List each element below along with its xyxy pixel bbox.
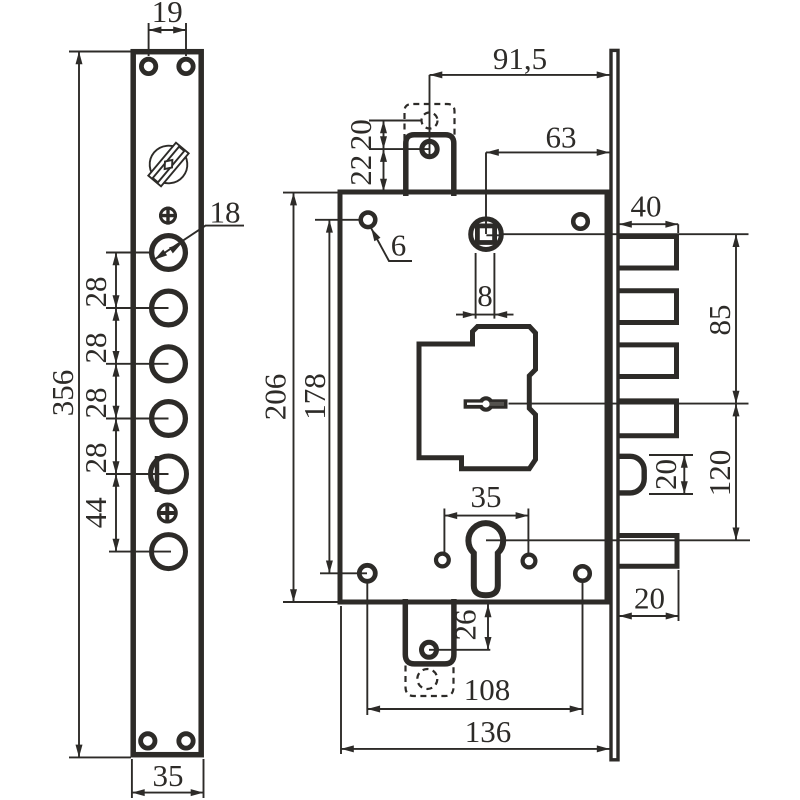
cross-head screw lower (157, 503, 178, 524)
spindle square center tick (486, 234, 503, 236)
dimension 8 (456, 253, 514, 319)
bolt hole 2 (152, 291, 186, 325)
dimension 356 extension lines (69, 52, 131, 758)
bottom tab hole (422, 642, 437, 657)
bolt 5 (619, 536, 677, 567)
svg-text:28: 28 (78, 277, 113, 308)
svg-text:35: 35 (471, 479, 502, 514)
spindle centerline (486, 233, 749, 235)
dimension 40 (619, 224, 678, 233)
faceplate outline (133, 52, 201, 755)
bolt 2 (619, 291, 677, 323)
dimension 178 line (328, 220, 330, 574)
chain 20/22 line and arrows (383, 121, 385, 192)
dimension 63 (486, 152, 610, 234)
bolt 1 (619, 237, 677, 269)
diameter 18 leader (155, 226, 245, 260)
svg-text:136: 136 (465, 714, 512, 749)
svg-text:22: 22 (343, 155, 378, 186)
hole centerlines left view (106, 253, 171, 552)
svg-text:63: 63 (546, 120, 577, 155)
dashed knock-out circle top (422, 113, 438, 129)
dimension 20 bolt5 (619, 570, 679, 621)
key cam centerline (509, 403, 749, 405)
svg-text:356: 356 (45, 370, 80, 417)
bolt hole 6 (152, 535, 186, 569)
chain 20/22 extension lines (369, 121, 430, 150)
top tab hole (422, 141, 437, 156)
faceplate edge-on strip (611, 50, 618, 759)
dimension 91,5 (429, 75, 431, 155)
bolt hole 5 with latch chord (151, 456, 187, 492)
auxiliary latch bolt (619, 456, 644, 493)
svg-text:18: 18 (210, 195, 241, 230)
dimension 206 extension lines (283, 193, 338, 602)
svg-text:28: 28 (78, 443, 113, 474)
bolt hole 4 (152, 402, 186, 436)
svg-text:28: 28 (78, 388, 113, 419)
cylinder housing block (419, 327, 536, 469)
svg-text:44: 44 (78, 497, 113, 529)
svg-text:108: 108 (464, 672, 511, 707)
top mounting tab (406, 135, 454, 196)
logo emblem on faceplate (140, 136, 196, 193)
svg-text:8: 8 (477, 278, 493, 313)
bolt hole 3 (152, 347, 186, 381)
dimension 26 (429, 602, 490, 650)
chain dimension line 28/44 (115, 253, 117, 552)
dimension 108 extension lines (367, 583, 582, 715)
dimension 19 extension lines (149, 23, 186, 56)
spindle follower circle (471, 219, 502, 250)
dimension 20 latch extension lines (649, 455, 693, 494)
dimension 35 cylinder line (444, 515, 528, 517)
chain arrows (113, 253, 120, 266)
svg-text:20: 20 (634, 581, 665, 616)
svg-text:206: 206 (258, 374, 293, 421)
euro profile keyhole (468, 523, 503, 595)
dashed knock-out box top (405, 104, 455, 140)
cross-head screw upper (159, 207, 177, 225)
dimension 206 line (293, 193, 295, 602)
leader 6 (371, 228, 412, 261)
svg-text:26: 26 (448, 610, 483, 641)
lock body outline (340, 192, 607, 602)
dimension 19 line and arrows (149, 29, 186, 31)
body screw hole bottom-left (359, 565, 375, 581)
dimension 35 faceplate line (132, 792, 204, 794)
screw hole top-right of faceplate (179, 59, 193, 73)
key cam (464, 396, 508, 411)
svg-text:85: 85 (702, 305, 737, 336)
svg-text:20: 20 (343, 119, 378, 150)
dimension 356 line and arrows (78, 52, 80, 758)
spindle square hole (477, 226, 494, 243)
svg-text:91,5: 91,5 (493, 41, 547, 76)
screw hole top-left of faceplate (141, 59, 155, 73)
screw hole bottom-left of faceplate (141, 734, 155, 748)
body screw hole top-right (573, 214, 588, 229)
dimension 136 extension line (340, 606, 342, 754)
cylinder fixing hole left (436, 554, 449, 567)
dimension 108 line (367, 708, 582, 710)
svg-text:178: 178 (297, 373, 332, 420)
dimension 20 latch line (683, 455, 685, 494)
dimension 35 faceplate extension lines (132, 759, 204, 798)
svg-text:20: 20 (648, 459, 683, 490)
dimension 120 (735, 404, 737, 541)
svg-text:6: 6 (391, 228, 407, 263)
dashed knock-out circle bottom (417, 669, 437, 689)
svg-text:19: 19 (152, 0, 183, 29)
body screw hole top-left (361, 213, 376, 228)
dimension 85 (735, 234, 737, 403)
bolt 4 (619, 401, 677, 436)
dimension 35 cylinder extension lines (444, 509, 528, 554)
svg-text:28: 28 (78, 333, 113, 364)
keyhole centerline (486, 539, 750, 541)
dimension 136 line (341, 748, 610, 750)
bottom mounting tab (405, 599, 454, 664)
bolt hole 1 (d18) (152, 236, 186, 270)
svg-text:35: 35 (153, 758, 184, 793)
svg-text:120: 120 (702, 450, 737, 497)
cylinder fixing hole right (523, 555, 536, 568)
dashed knock-out box bottom (406, 666, 454, 697)
svg-text:40: 40 (631, 189, 662, 224)
screw hole bottom-right of faceplate (179, 734, 193, 748)
dimension 178 extension lines (315, 220, 367, 574)
body screw hole bottom-right (575, 566, 590, 581)
bolt 3 (619, 345, 677, 377)
